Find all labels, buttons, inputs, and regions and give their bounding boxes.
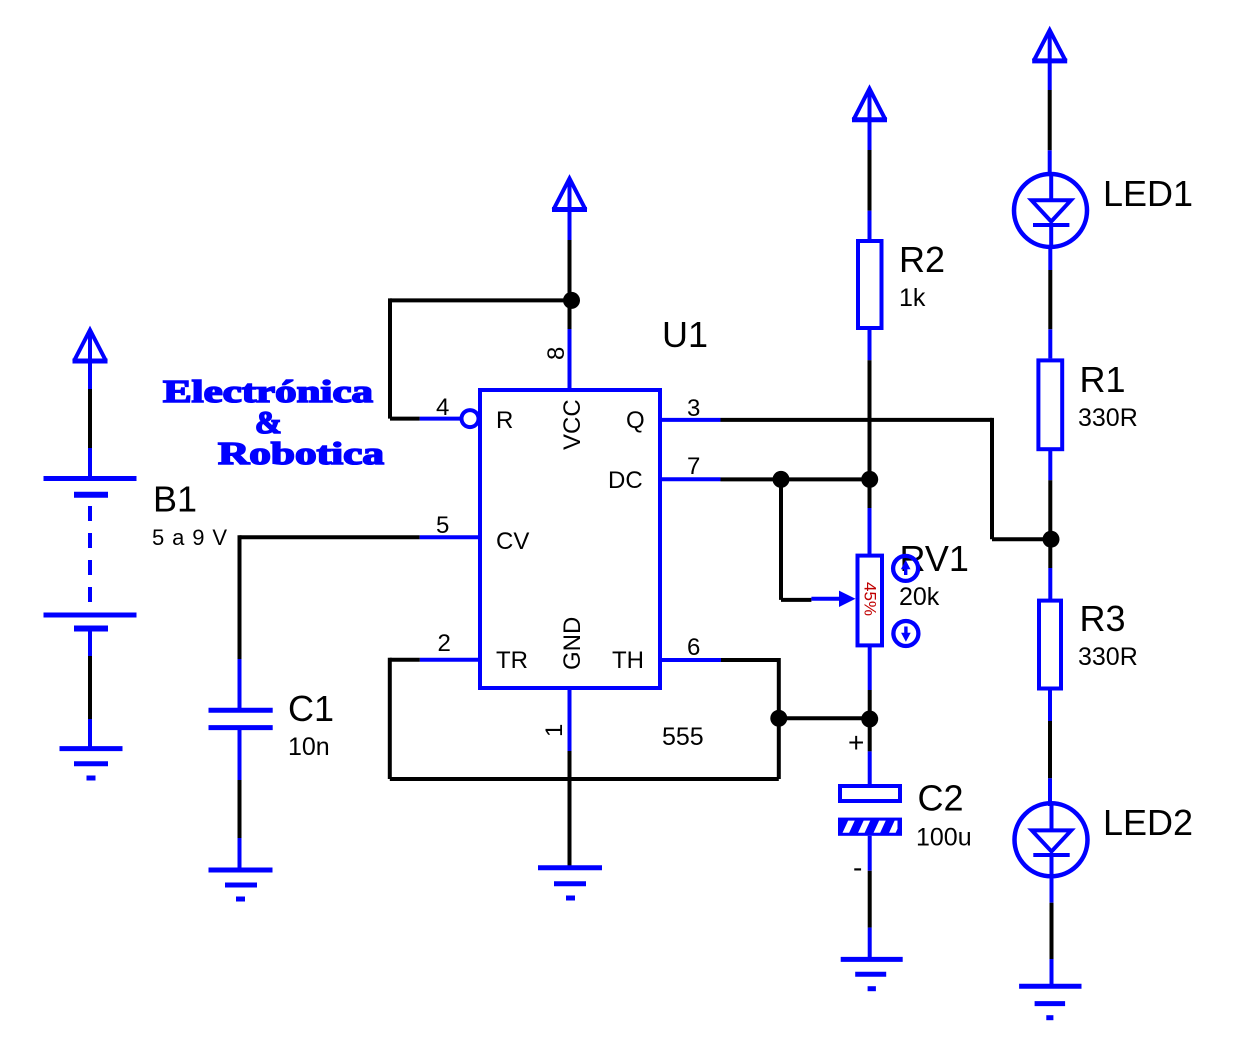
svg-text:TH: TH [612, 647, 644, 674]
wire R1 bottom [1048, 449, 1052, 600]
svg-text:5 a 9 V: 5 a 9 V [152, 525, 227, 550]
wire R2 bottom [868, 330, 872, 554]
resistor R1 [1038, 360, 1062, 449]
svg-text:DC: DC [608, 467, 643, 494]
wire TH link [721, 658, 870, 779]
resistor R3 [1039, 601, 1061, 689]
ground C2 [841, 959, 903, 988]
wire CV to C1 [240, 535, 420, 710]
capacitor C2 [838, 786, 916, 839]
wire reset loop [390, 298, 572, 418]
svg-text:Robotica: Robotica [218, 435, 384, 471]
svg-text:U1: U1 [662, 314, 708, 355]
wire C2 bottom [868, 836, 872, 958]
svg-text:100u: 100u [916, 824, 972, 852]
svg-text:10n: 10n [288, 733, 330, 761]
svg-text:3: 3 [687, 395, 700, 422]
svg-text:C1: C1 [288, 688, 334, 729]
svg-text:TR: TR [496, 647, 528, 674]
wire LED2 bottom [1050, 876, 1054, 986]
svg-text:R: R [496, 407, 513, 434]
wire RV1 bottom [868, 645, 872, 751]
power symbol VCC above U1 [552, 179, 587, 241]
ground B1 [60, 749, 123, 778]
wire LED1 to R1 [1048, 246, 1052, 359]
svg-text:Q: Q [626, 407, 645, 434]
power symbol R2 top [852, 89, 887, 150]
wire C1 bottom [238, 728, 242, 868]
svg-text:555: 555 [662, 723, 704, 751]
adjust down button RV1 [893, 621, 918, 646]
pin 4 stub and bubble [420, 410, 479, 427]
svg-text:VCC: VCC [559, 399, 586, 450]
svg-text:330R: 330R [1078, 643, 1138, 671]
svg-text:7: 7 [687, 453, 700, 480]
svg-text:1k: 1k [899, 284, 926, 312]
pin 1 stub [568, 688, 572, 751]
logo text Electronica & Robotica [163, 373, 384, 471]
pin 2 stub [420, 658, 478, 662]
pin 5 stub [420, 535, 478, 539]
ground C1 [209, 870, 273, 899]
wiper arrow RV1 [811, 591, 855, 607]
adjust up button RV1 [893, 556, 918, 581]
wire C2 top [868, 751, 872, 784]
wire R2 top [868, 150, 872, 240]
ground U1 [538, 868, 602, 898]
svg-text:C2: C2 [918, 778, 964, 819]
svg-text:CV: CV [496, 528, 529, 555]
svg-text:1: 1 [541, 724, 568, 737]
svg-text:5: 5 [436, 512, 449, 539]
pin 8 stub [568, 329, 572, 390]
pin 6 stub [662, 658, 721, 662]
svg-text:LED1: LED1 [1103, 173, 1193, 214]
node Q junction [1043, 531, 1060, 548]
node VCC junction [563, 292, 580, 309]
wire VCC [568, 240, 572, 329]
wire bottom TR loop [390, 658, 779, 779]
node TH junction [770, 710, 787, 727]
svg-text:B1: B1 [153, 479, 197, 520]
svg-text:20k: 20k [899, 583, 940, 611]
wire LED1 top [1048, 90, 1052, 176]
node RV1-C2 junction [861, 711, 878, 728]
svg-text:6: 6 [687, 634, 700, 661]
svg-text:-: - [853, 852, 862, 883]
power symbol B1 top [73, 330, 108, 389]
pin 7 stub [662, 477, 721, 481]
wire B1 bottom [88, 629, 92, 749]
svg-text:330R: 330R [1078, 404, 1138, 432]
svg-text:R1: R1 [1080, 359, 1126, 400]
wire B1 top [88, 389, 92, 478]
node DC junction right [861, 471, 878, 488]
svg-text:45%: 45% [861, 582, 880, 616]
op 555 IC U1 box [480, 390, 660, 688]
potentiometer RV1 body [858, 556, 883, 646]
LED1 [1014, 173, 1087, 247]
pin 3 stub [662, 418, 721, 422]
capacitor C1 [209, 710, 273, 727]
svg-text:R2: R2 [899, 239, 945, 280]
wire DC [721, 477, 870, 481]
battery B1 [44, 479, 137, 629]
resistor R2 [858, 241, 882, 328]
svg-text:GND: GND [559, 617, 586, 670]
svg-text:LED2: LED2 [1103, 802, 1193, 843]
ground LED2 [1019, 986, 1081, 1018]
wire Q output [721, 418, 1052, 539]
svg-text:8: 8 [543, 347, 570, 360]
wire RV1 wiper [781, 479, 811, 600]
svg-text:R3: R3 [1080, 598, 1126, 639]
wire R3 to LED2 [1048, 689, 1052, 807]
svg-text:2: 2 [438, 630, 451, 657]
power symbol LED1 top [1032, 30, 1067, 90]
wire GND pin1 [568, 751, 572, 866]
svg-text:4: 4 [436, 394, 449, 421]
LED2 [1015, 803, 1088, 876]
node DC junction left [773, 471, 790, 488]
svg-text:+: + [848, 727, 864, 758]
